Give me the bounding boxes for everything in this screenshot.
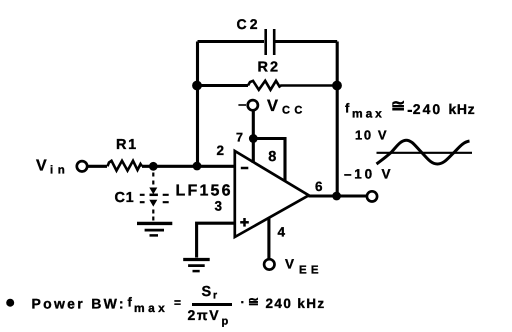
svg-text:f: f: [345, 101, 350, 116]
svg-text:V: V: [285, 257, 294, 272]
svg-text:3: 3: [215, 199, 223, 214]
svg-text:6: 6: [315, 179, 323, 194]
svg-text:≅: ≅: [248, 294, 259, 309]
svg-text:R2: R2: [258, 60, 281, 76]
svg-text:max: max: [352, 107, 385, 121]
svg-text:kHz: kHz: [449, 101, 476, 117]
svg-text:f: f: [128, 295, 133, 310]
svg-text:C1: C1: [115, 190, 135, 206]
svg-text:in: in: [50, 165, 69, 177]
svg-text:=: =: [174, 296, 181, 310]
svg-text:7: 7: [236, 131, 243, 145]
svg-text:CC: CC: [282, 105, 307, 117]
svg-text:EE: EE: [299, 265, 323, 277]
svg-text:p: p: [222, 316, 229, 328]
svg-text:r: r: [213, 290, 217, 302]
svg-text:·: ·: [241, 295, 245, 310]
svg-text:4: 4: [278, 225, 286, 240]
svg-text:10 V: 10 V: [355, 128, 388, 143]
svg-text:2: 2: [217, 143, 225, 158]
svg-text:S: S: [202, 284, 212, 300]
svg-text:R1: R1: [116, 137, 138, 153]
svg-text:–10 V: –10 V: [344, 167, 393, 182]
svg-text:V: V: [36, 158, 47, 175]
svg-text:2πV: 2πV: [188, 307, 221, 323]
svg-text:240: 240: [413, 101, 442, 117]
svg-text:240 kHz: 240 kHz: [266, 296, 326, 311]
svg-text:Power BW:: Power BW:: [32, 296, 126, 312]
svg-text:8: 8: [268, 149, 276, 165]
svg-text:C2: C2: [237, 16, 261, 32]
svg-text:≅: ≅: [391, 97, 405, 116]
svg-text:LF156: LF156: [176, 183, 233, 200]
svg-text:V: V: [267, 97, 278, 115]
svg-text:max: max: [134, 301, 168, 315]
